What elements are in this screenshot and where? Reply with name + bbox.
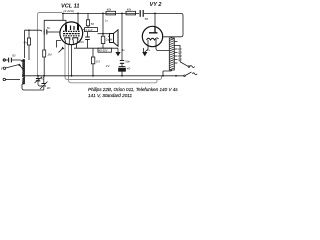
- svg-text:4s: 4s: [147, 48, 151, 52]
- svg-text:VY 2: VY 2: [150, 2, 163, 8]
- svg-text:4s: 4s: [122, 48, 126, 52]
- svg-text:141 V, Standard 2011: 141 V, Standard 2011: [88, 93, 132, 98]
- svg-text:220: 220: [177, 60, 183, 62]
- svg-text:0,1µF: 0,1µF: [86, 28, 93, 32]
- svg-text:50: 50: [145, 17, 149, 21]
- svg-text:40: 40: [127, 67, 131, 71]
- svg-text:50: 50: [91, 22, 95, 26]
- svg-text:4M: 4M: [24, 40, 29, 44]
- svg-text:0,1M: 0,1M: [106, 38, 113, 42]
- svg-text:40: 40: [47, 86, 51, 90]
- svg-text:5n: 5n: [47, 26, 51, 30]
- svg-text:40k: 40k: [107, 7, 112, 11]
- svg-text:20n: 20n: [78, 40, 84, 44]
- svg-text:40-50V: 40-50V: [99, 49, 108, 53]
- svg-text:45k: 45k: [127, 7, 132, 11]
- svg-text:1M: 1M: [47, 53, 52, 57]
- svg-text:40: 40: [41, 76, 45, 80]
- svg-text:50n: 50n: [125, 60, 130, 64]
- svg-text:Philips 22B, Orion 011, Telefu: Philips 22B, Orion 011, Telefunken 140 V…: [88, 87, 178, 92]
- svg-text:50: 50: [12, 53, 16, 57]
- svg-text:0,5: 0,5: [96, 60, 101, 64]
- svg-text:(2-22U): (2-22U): [64, 9, 75, 13]
- svg-text:A: A: [2, 59, 5, 63]
